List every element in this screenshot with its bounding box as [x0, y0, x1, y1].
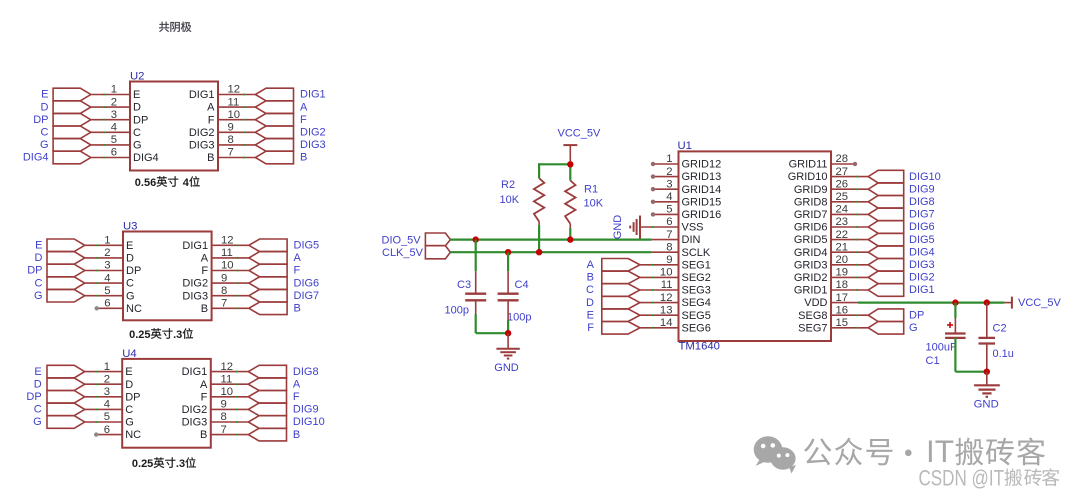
- svg-text:4: 4: [111, 122, 117, 134]
- wire C3-C4 ground link: [476, 332, 508, 334]
- wire pin 8: [211, 421, 249, 423]
- wire pin 11: [212, 257, 249, 259]
- NC stub U1 pin 4: [653, 201, 679, 203]
- svg-text:A: A: [300, 101, 308, 113]
- wire pin 12: [211, 371, 249, 373]
- svg-text:GND: GND: [494, 362, 519, 374]
- svg-text:DIN: DIN: [682, 234, 701, 246]
- junction CLK-C4: [505, 249, 511, 255]
- svg-text:VSS: VSS: [682, 222, 704, 234]
- wire C4 bottom lead: [507, 300, 509, 320]
- wire pin 7: [211, 434, 249, 436]
- wire DIO net: [450, 239, 651, 241]
- svg-text:12: 12: [228, 84, 241, 96]
- svg-text:E: E: [35, 240, 42, 252]
- svg-text:R1: R1: [584, 184, 598, 196]
- svg-text:DIG9: DIG9: [909, 183, 935, 195]
- svg-text:DP: DP: [26, 391, 41, 403]
- svg-text:DIG3: DIG3: [909, 259, 935, 271]
- net flag F (pin 10 of U4): [248, 391, 286, 404]
- svg-text:B: B: [587, 272, 594, 284]
- net flag B (pin 7 of U3): [249, 302, 287, 315]
- svg-text:DP: DP: [27, 265, 42, 277]
- svg-text:100p: 100p: [445, 305, 469, 317]
- watermark wechat icon: [754, 436, 796, 473]
- svg-text:E: E: [41, 89, 48, 101]
- svg-text:U2: U2: [130, 71, 144, 83]
- net flag D (U1 pin 12): [602, 296, 640, 309]
- NC stub pin 6 of U4: [96, 434, 122, 436]
- svg-text:G: G: [40, 139, 49, 151]
- capacitor C1: [945, 332, 966, 334]
- svg-text:12: 12: [221, 361, 234, 373]
- text 共阴极 (common cathode heading): [159, 22, 169, 32]
- svg-text:3: 3: [104, 260, 110, 272]
- net flag DIG5 (U1 pin 22): [868, 233, 904, 246]
- NC stub pin 6 of U3: [97, 307, 123, 309]
- svg-text:A: A: [587, 259, 595, 271]
- wire U1 pin 20: [831, 264, 868, 266]
- svg-text:A: A: [294, 252, 302, 264]
- net flag F (pin 10 of U2): [255, 113, 293, 126]
- wire U1 pin 12: [640, 302, 679, 304]
- svg-text:DIG2: DIG2: [300, 127, 326, 139]
- net flag F (U1 pin 14): [602, 322, 640, 335]
- svg-text:DIG2: DIG2: [182, 278, 208, 290]
- net flag DIG4 (U1 pin 21): [868, 246, 904, 259]
- svg-text:D: D: [586, 297, 594, 309]
- svg-text:DIG4: DIG4: [133, 152, 159, 164]
- watermark text 公众号: [804, 438, 831, 465]
- svg-text:C1: C1: [926, 355, 940, 367]
- pin stub U1 pin 17 (VDD): [831, 302, 858, 304]
- wire U1 pin 23: [831, 226, 868, 228]
- wire pin 12: [218, 94, 255, 96]
- svg-text:C: C: [586, 284, 594, 296]
- svg-text:B: B: [300, 152, 307, 164]
- svg-text:10: 10: [221, 386, 234, 398]
- svg-text:DP: DP: [133, 114, 148, 126]
- wire pin 4: [91, 131, 130, 133]
- svg-text:DIG1: DIG1: [189, 89, 215, 101]
- wire pin 8: [212, 295, 249, 297]
- net flag DIG9 (U1 pin 26): [868, 183, 904, 196]
- net flag G (pin 5 of U3): [47, 289, 85, 302]
- svg-text:A: A: [207, 102, 215, 114]
- wire U1 pin 6 (VSS): [640, 226, 679, 228]
- net flag DIO_5V: [425, 233, 450, 246]
- svg-text:U4: U4: [122, 348, 136, 360]
- svg-text:C4: C4: [515, 279, 529, 291]
- svg-text:8: 8: [228, 134, 234, 146]
- net flag E (pin 1 of U2): [53, 88, 91, 101]
- wire pin 4: [85, 408, 123, 410]
- svg-text:DIG8: DIG8: [909, 196, 935, 208]
- svg-text:F: F: [587, 322, 594, 334]
- svg-text:U1: U1: [678, 140, 692, 152]
- net flag G (pin 5 of U2): [53, 139, 91, 152]
- svg-text:DIG3: DIG3: [182, 290, 208, 302]
- wire U1 pin 9: [640, 264, 679, 266]
- IC U2 box: [130, 82, 218, 171]
- svg-text:100uF: 100uF: [926, 342, 957, 354]
- wire pin 2: [85, 257, 123, 259]
- svg-text:DIG10: DIG10: [293, 416, 325, 428]
- wire pin 3: [91, 119, 130, 121]
- wire C1 top lead: [954, 303, 956, 318]
- net flag DIG6 (pin 9 of U3): [249, 277, 287, 290]
- svg-text:2: 2: [111, 96, 117, 108]
- wire U1 pin 13: [640, 314, 679, 316]
- wire C3 top lead: [475, 240, 477, 272]
- svg-text:E: E: [125, 366, 132, 378]
- wire R2 bottom to CLK net: [538, 222, 540, 226]
- svg-text:C: C: [41, 127, 49, 139]
- wire pin 11: [211, 383, 249, 385]
- junction VDD-C1: [952, 299, 958, 305]
- svg-text:SCLK: SCLK: [682, 247, 711, 259]
- wire pin 1: [91, 94, 130, 96]
- wire pin 1: [85, 244, 123, 246]
- svg-text:GRID15: GRID15: [682, 196, 722, 208]
- resistor R1: [565, 181, 575, 224]
- svg-text:3: 3: [104, 386, 110, 398]
- svg-text:8: 8: [221, 285, 227, 297]
- svg-text:DIG3: DIG3: [300, 139, 326, 151]
- svg-text:D: D: [41, 101, 49, 113]
- net flag DIG8 (pin 12 of U4): [248, 365, 286, 378]
- svg-text:DIG1: DIG1: [182, 366, 208, 378]
- svg-text:7: 7: [228, 147, 234, 159]
- svg-text:6: 6: [104, 424, 110, 436]
- svg-text:5: 5: [111, 134, 117, 146]
- wire pin 10: [211, 396, 249, 398]
- IC U4 box: [122, 359, 211, 448]
- wire pin 5: [91, 144, 130, 146]
- wire pin 10: [212, 270, 249, 272]
- svg-text:G: G: [133, 140, 142, 152]
- svg-text:G: G: [34, 290, 43, 302]
- svg-text:10: 10: [221, 260, 234, 272]
- svg-text:SEG6: SEG6: [682, 322, 711, 334]
- net flag D (pin 2 of U3): [47, 252, 85, 265]
- svg-text:9: 9: [221, 272, 227, 284]
- wire pin 9: [212, 282, 249, 284]
- svg-text:DIG6: DIG6: [909, 221, 935, 233]
- capacitor C4: [498, 293, 519, 295]
- svg-text:SEG2: SEG2: [682, 272, 711, 284]
- capacitor C2: [979, 337, 996, 339]
- resistor R2: [534, 178, 544, 221]
- wire pin 11: [218, 106, 255, 108]
- power port VCC_5V (top): [563, 144, 577, 146]
- svg-text:R2: R2: [501, 179, 515, 191]
- net flag DP (U1 pin 16): [868, 309, 904, 322]
- svg-text:11: 11: [221, 373, 233, 385]
- net flag E (U1 pin 13): [602, 309, 640, 322]
- svg-text:C: C: [34, 404, 42, 416]
- svg-text:DIG5: DIG5: [294, 240, 320, 252]
- svg-text:SEG1: SEG1: [682, 259, 711, 271]
- net flag DIG5 (pin 12 of U3): [249, 239, 287, 252]
- wire U1 pin 27: [831, 176, 868, 178]
- junction C4 ground: [505, 330, 511, 336]
- net flag C (U1 pin 11): [602, 284, 640, 297]
- wire CLK net: [450, 251, 651, 253]
- NC stub U1 pin 28: [831, 163, 855, 165]
- svg-text:1: 1: [111, 84, 117, 96]
- wire pin 5: [85, 295, 123, 297]
- capacitor C2 bottom lead: [986, 344, 988, 372]
- svg-text:0.56: 0.56: [135, 177, 156, 189]
- svg-text:DIO_5V: DIO_5V: [382, 234, 422, 246]
- wire U1 pin 11: [640, 289, 679, 291]
- net flag DP (pin 3 of U2): [53, 113, 91, 126]
- svg-text:C: C: [35, 277, 43, 289]
- IC U3 box: [123, 232, 212, 321]
- svg-text:5: 5: [104, 285, 110, 297]
- wire VCC junction to R2: [539, 163, 570, 165]
- svg-text:B: B: [201, 303, 208, 315]
- svg-text:4: 4: [104, 272, 110, 284]
- svg-text:11: 11: [221, 247, 233, 259]
- svg-text:0.25: 0.25: [132, 458, 153, 470]
- svg-text:GRID13: GRID13: [682, 171, 722, 183]
- svg-text:DP: DP: [33, 114, 48, 126]
- net flag DIG3 (U1 pin 20): [868, 259, 904, 272]
- svg-text:CSDN @IT: CSDN @IT: [919, 466, 1005, 491]
- junction ground C1/C2: [984, 369, 990, 375]
- net flag E (pin 1 of U4): [47, 365, 85, 378]
- svg-text:DIG8: DIG8: [293, 366, 319, 378]
- svg-text:NC: NC: [125, 429, 141, 441]
- svg-text:CLK_5V: CLK_5V: [382, 247, 424, 259]
- net flag A (U1 pin 9): [602, 259, 640, 272]
- svg-text:GRID8: GRID8: [794, 196, 828, 208]
- svg-text:GND: GND: [612, 215, 624, 240]
- svg-text:G: G: [909, 322, 918, 334]
- capacitor C1 plus sign: [947, 324, 953, 326]
- wire pin 5: [85, 421, 123, 423]
- svg-text:SEG8: SEG8: [798, 310, 827, 322]
- wire pin 3: [85, 396, 123, 398]
- svg-text:D: D: [126, 253, 134, 265]
- svg-text:GRID9: GRID9: [794, 184, 828, 196]
- svg-text:DIG1: DIG1: [182, 240, 208, 252]
- svg-text:DIG7: DIG7: [294, 290, 320, 302]
- net flag DIG1 (U1 pin 18): [868, 284, 904, 297]
- svg-text:GRID3: GRID3: [794, 259, 828, 271]
- net flag A (pin 11 of U2): [255, 101, 293, 114]
- svg-text:DIG3: DIG3: [182, 417, 208, 429]
- net flag DIG10 (U1 pin 27): [868, 170, 904, 183]
- svg-text:1: 1: [104, 235, 110, 247]
- svg-text:6: 6: [111, 147, 117, 159]
- NC stub U1 pin 3: [653, 188, 679, 190]
- svg-text:DIG4: DIG4: [23, 152, 49, 164]
- svg-text:9: 9: [228, 122, 234, 134]
- svg-text:DIG4: DIG4: [909, 246, 935, 258]
- junction VDD-C2: [984, 299, 990, 305]
- svg-text:D: D: [35, 252, 43, 264]
- svg-text:GRID14: GRID14: [682, 184, 722, 196]
- net flag F (pin 10 of U3): [249, 264, 287, 277]
- svg-text:E: E: [587, 309, 594, 321]
- net flag C (pin 4 of U3): [47, 277, 85, 290]
- net flag DIG6 (U1 pin 23): [868, 221, 904, 234]
- wire pin 10: [218, 119, 255, 121]
- svg-text:VCC_5V: VCC_5V: [1018, 297, 1061, 309]
- IC U1 box: [679, 151, 832, 341]
- svg-text:C: C: [133, 127, 141, 139]
- junction CLK-R2: [536, 249, 542, 255]
- svg-text:DIG9: DIG9: [293, 404, 319, 416]
- svg-text:NC: NC: [126, 303, 142, 315]
- wire pin 6: [91, 157, 130, 159]
- svg-text:5: 5: [104, 411, 110, 423]
- svg-text:100p: 100p: [507, 312, 531, 324]
- svg-text:A: A: [293, 378, 301, 390]
- wire R1 bottom to DIO net: [569, 224, 571, 228]
- svg-text:DIG5: DIG5: [909, 234, 935, 246]
- svg-text:G: G: [126, 290, 135, 302]
- svg-text:SEG5: SEG5: [682, 310, 711, 322]
- svg-text:SEG4: SEG4: [682, 297, 711, 309]
- svg-text:10: 10: [228, 109, 241, 121]
- svg-text:D: D: [34, 378, 42, 390]
- net flag DIG2 (pin 9 of U2): [255, 126, 293, 139]
- watermark text 搬砖客: [955, 438, 983, 466]
- svg-text:F: F: [300, 114, 307, 126]
- svg-text:GRID2: GRID2: [794, 272, 828, 284]
- svg-text:U3: U3: [123, 221, 137, 233]
- svg-text:2: 2: [104, 247, 110, 259]
- svg-text:E: E: [126, 240, 133, 252]
- wire pin 1: [85, 371, 123, 373]
- net flag DIG4 (pin 6 of U2): [53, 151, 91, 164]
- svg-text:DIG2: DIG2: [182, 404, 208, 416]
- svg-text:3: 3: [111, 109, 117, 121]
- svg-text:10K: 10K: [584, 198, 604, 210]
- net flag DIG1 (pin 12 of U2): [255, 88, 293, 101]
- net flag A (pin 11 of U4): [248, 378, 286, 391]
- wire VCC junction to R1: [569, 164, 571, 180]
- wire pin 12: [212, 244, 249, 246]
- wire pin 9: [211, 408, 249, 410]
- net flag D (pin 2 of U2): [53, 101, 91, 114]
- wire U1 pin 21: [831, 251, 868, 253]
- svg-text:DIG2: DIG2: [189, 127, 215, 139]
- capacitor C3: [465, 293, 486, 295]
- svg-text:0.25: 0.25: [129, 329, 150, 341]
- svg-text:F: F: [208, 114, 215, 126]
- svg-text:VDD: VDD: [804, 297, 827, 309]
- svg-text:.3: .3: [173, 329, 182, 341]
- wire U1 pin 14: [640, 327, 679, 329]
- wire U1 pin 26: [831, 188, 868, 190]
- svg-text:9: 9: [221, 399, 227, 411]
- svg-text:E: E: [34, 366, 41, 378]
- svg-text:G: G: [125, 417, 134, 429]
- wire U1 pin 10: [640, 276, 679, 278]
- net flag A (pin 11 of U3): [249, 252, 287, 265]
- svg-text:7: 7: [221, 424, 227, 436]
- svg-text:SEG7: SEG7: [798, 322, 827, 334]
- svg-text:7: 7: [221, 298, 227, 310]
- svg-text:D: D: [133, 102, 141, 114]
- net flag B (pin 7 of U2): [255, 151, 293, 164]
- svg-text:B: B: [200, 429, 207, 441]
- NC stub U1 pin 2: [653, 176, 679, 178]
- svg-text:1: 1: [104, 361, 110, 373]
- capacitor C2 top lead: [986, 303, 988, 338]
- svg-text:11: 11: [228, 96, 240, 108]
- svg-text:DIG1: DIG1: [909, 284, 935, 296]
- svg-text:GRID11: GRID11: [789, 159, 828, 171]
- net flag DIG10 (pin 8 of U4): [248, 416, 286, 429]
- pin stub U1 pin 7: [652, 239, 679, 241]
- wire pin 4: [85, 282, 123, 284]
- svg-text:GRID16: GRID16: [682, 209, 722, 221]
- ground symbol (C1/C2): [986, 372, 988, 386]
- net flag DP (pin 3 of U3): [47, 264, 85, 277]
- svg-text:VCC_5V: VCC_5V: [558, 127, 601, 139]
- power port VCC_5V (right): [1004, 302, 1012, 304]
- ground symbol (C3/C4): [507, 333, 509, 349]
- wire U1 pin 15: [831, 327, 868, 329]
- svg-text:C: C: [125, 404, 133, 416]
- NC stub U1 pin 1: [653, 163, 679, 165]
- net flag D (pin 2 of U4): [47, 378, 85, 391]
- svg-text:0.1u: 0.1u: [993, 348, 1014, 360]
- svg-text:DIG10: DIG10: [909, 171, 941, 183]
- svg-text:GRID10: GRID10: [788, 171, 828, 183]
- net flag E (pin 1 of U3): [47, 239, 85, 252]
- svg-text:TM1640: TM1640: [679, 341, 720, 353]
- svg-text:C2: C2: [993, 323, 1007, 335]
- wire C4 top lead: [507, 252, 509, 271]
- svg-text:DIG2: DIG2: [909, 272, 935, 284]
- wire pin 3: [85, 270, 123, 272]
- wire C3 bottom lead: [475, 300, 477, 314]
- ground symbol (VSS, rotated): [639, 216, 641, 239]
- net flag B (U1 pin 10): [602, 271, 640, 284]
- wire U1 pin 24: [831, 213, 868, 215]
- wire U1 pin 18: [831, 289, 868, 291]
- svg-text:GRID5: GRID5: [794, 234, 828, 246]
- net flag B (pin 7 of U4): [248, 428, 286, 441]
- svg-text:12: 12: [221, 235, 234, 247]
- svg-text:E: E: [133, 89, 140, 101]
- net flag DIG7 (U1 pin 24): [868, 208, 904, 221]
- svg-text:F: F: [294, 265, 301, 277]
- svg-text:G: G: [33, 416, 42, 428]
- wire U1 pin 16: [831, 314, 868, 316]
- svg-text:GRID1: GRID1: [794, 285, 828, 297]
- wire U1 pin 25: [831, 201, 868, 203]
- svg-text:B: B: [294, 303, 301, 315]
- net flag C (pin 4 of U4): [47, 403, 85, 416]
- watermark middle dot: [905, 450, 912, 457]
- svg-text:8: 8: [221, 411, 227, 423]
- svg-text:A: A: [200, 379, 208, 391]
- svg-text:C: C: [126, 278, 134, 290]
- svg-text:10K: 10K: [500, 194, 520, 206]
- wire C1-C2 ground link: [955, 371, 986, 373]
- svg-text:IT: IT: [926, 433, 954, 469]
- wire pin 7: [218, 157, 255, 159]
- svg-text:DIG7: DIG7: [909, 209, 935, 221]
